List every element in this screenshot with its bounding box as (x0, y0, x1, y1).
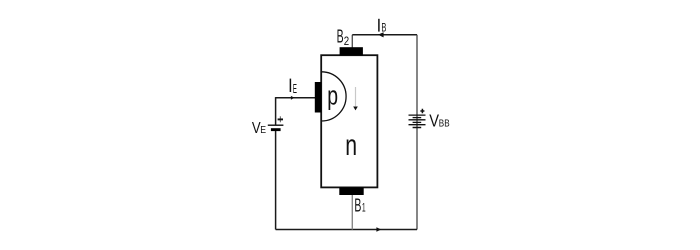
bottom wire arrow (pointing right) (376, 227, 381, 232)
VBB plus sign (420, 109, 424, 114)
label IB (378, 19, 380, 32)
contact B2 (black bar on top) (340, 47, 363, 55)
gray down arrow inside bar (355, 87, 357, 106)
svg-text:BB: BB (439, 118, 450, 130)
label IE (289, 79, 291, 92)
n-type bar rectangle (321, 55, 377, 187)
svg-text:B: B (354, 194, 361, 215)
VE plus sign (279, 116, 281, 122)
IE arrow on left wire (pointing right) (291, 96, 295, 100)
wire: left vertical upper (corner to VE battery) (275, 97, 277, 125)
VE battery: top long plate (268, 124, 284, 126)
svg-text:E: E (293, 81, 297, 96)
contact B1 (black bar on bottom) (339, 187, 363, 195)
svg-text:B: B (337, 26, 344, 46)
svg-text:2: 2 (344, 35, 349, 48)
svg-text:B: B (381, 21, 386, 35)
emitter contact (black bar on left edge) (315, 82, 322, 113)
VBB battery stack (409, 114, 426, 116)
IB arrow on top wire (pointing left) (378, 32, 384, 37)
svg-text:n: n (345, 129, 357, 162)
VE battery: bottom short thick plate (271, 128, 281, 131)
wire: left horizontal from VE to emitter contact (276, 97, 315, 99)
wire: B2 stub from contact up to top wire (351, 35, 353, 48)
wire: left vertical lower (VE battery to bottom wire) (275, 131, 277, 230)
p region semicircle (322, 72, 347, 121)
wire: top horizontal to VBB (352, 34, 417, 36)
svg-text:E: E (260, 125, 266, 136)
svg-text:V: V (429, 111, 439, 131)
wire: B1 stub from contact down to bottom wire (351, 195, 353, 230)
wire: bottom horizontal (276, 229, 417, 231)
svg-text:1: 1 (362, 202, 366, 214)
svg-text:p: p (327, 80, 338, 110)
wire: right vertical through VBB down to bottom (416, 35, 418, 230)
